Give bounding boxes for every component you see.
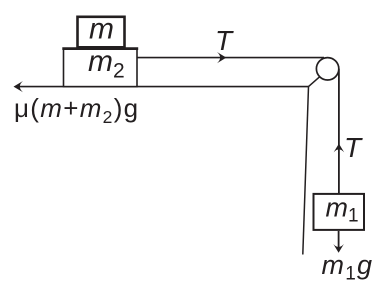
svg-text:μ(m+m2)g: μ(m+m2)g: [14, 93, 139, 127]
svg-text:T: T: [344, 132, 363, 163]
svg-text:m: m: [89, 13, 114, 46]
svg-text:T: T: [215, 25, 234, 56]
